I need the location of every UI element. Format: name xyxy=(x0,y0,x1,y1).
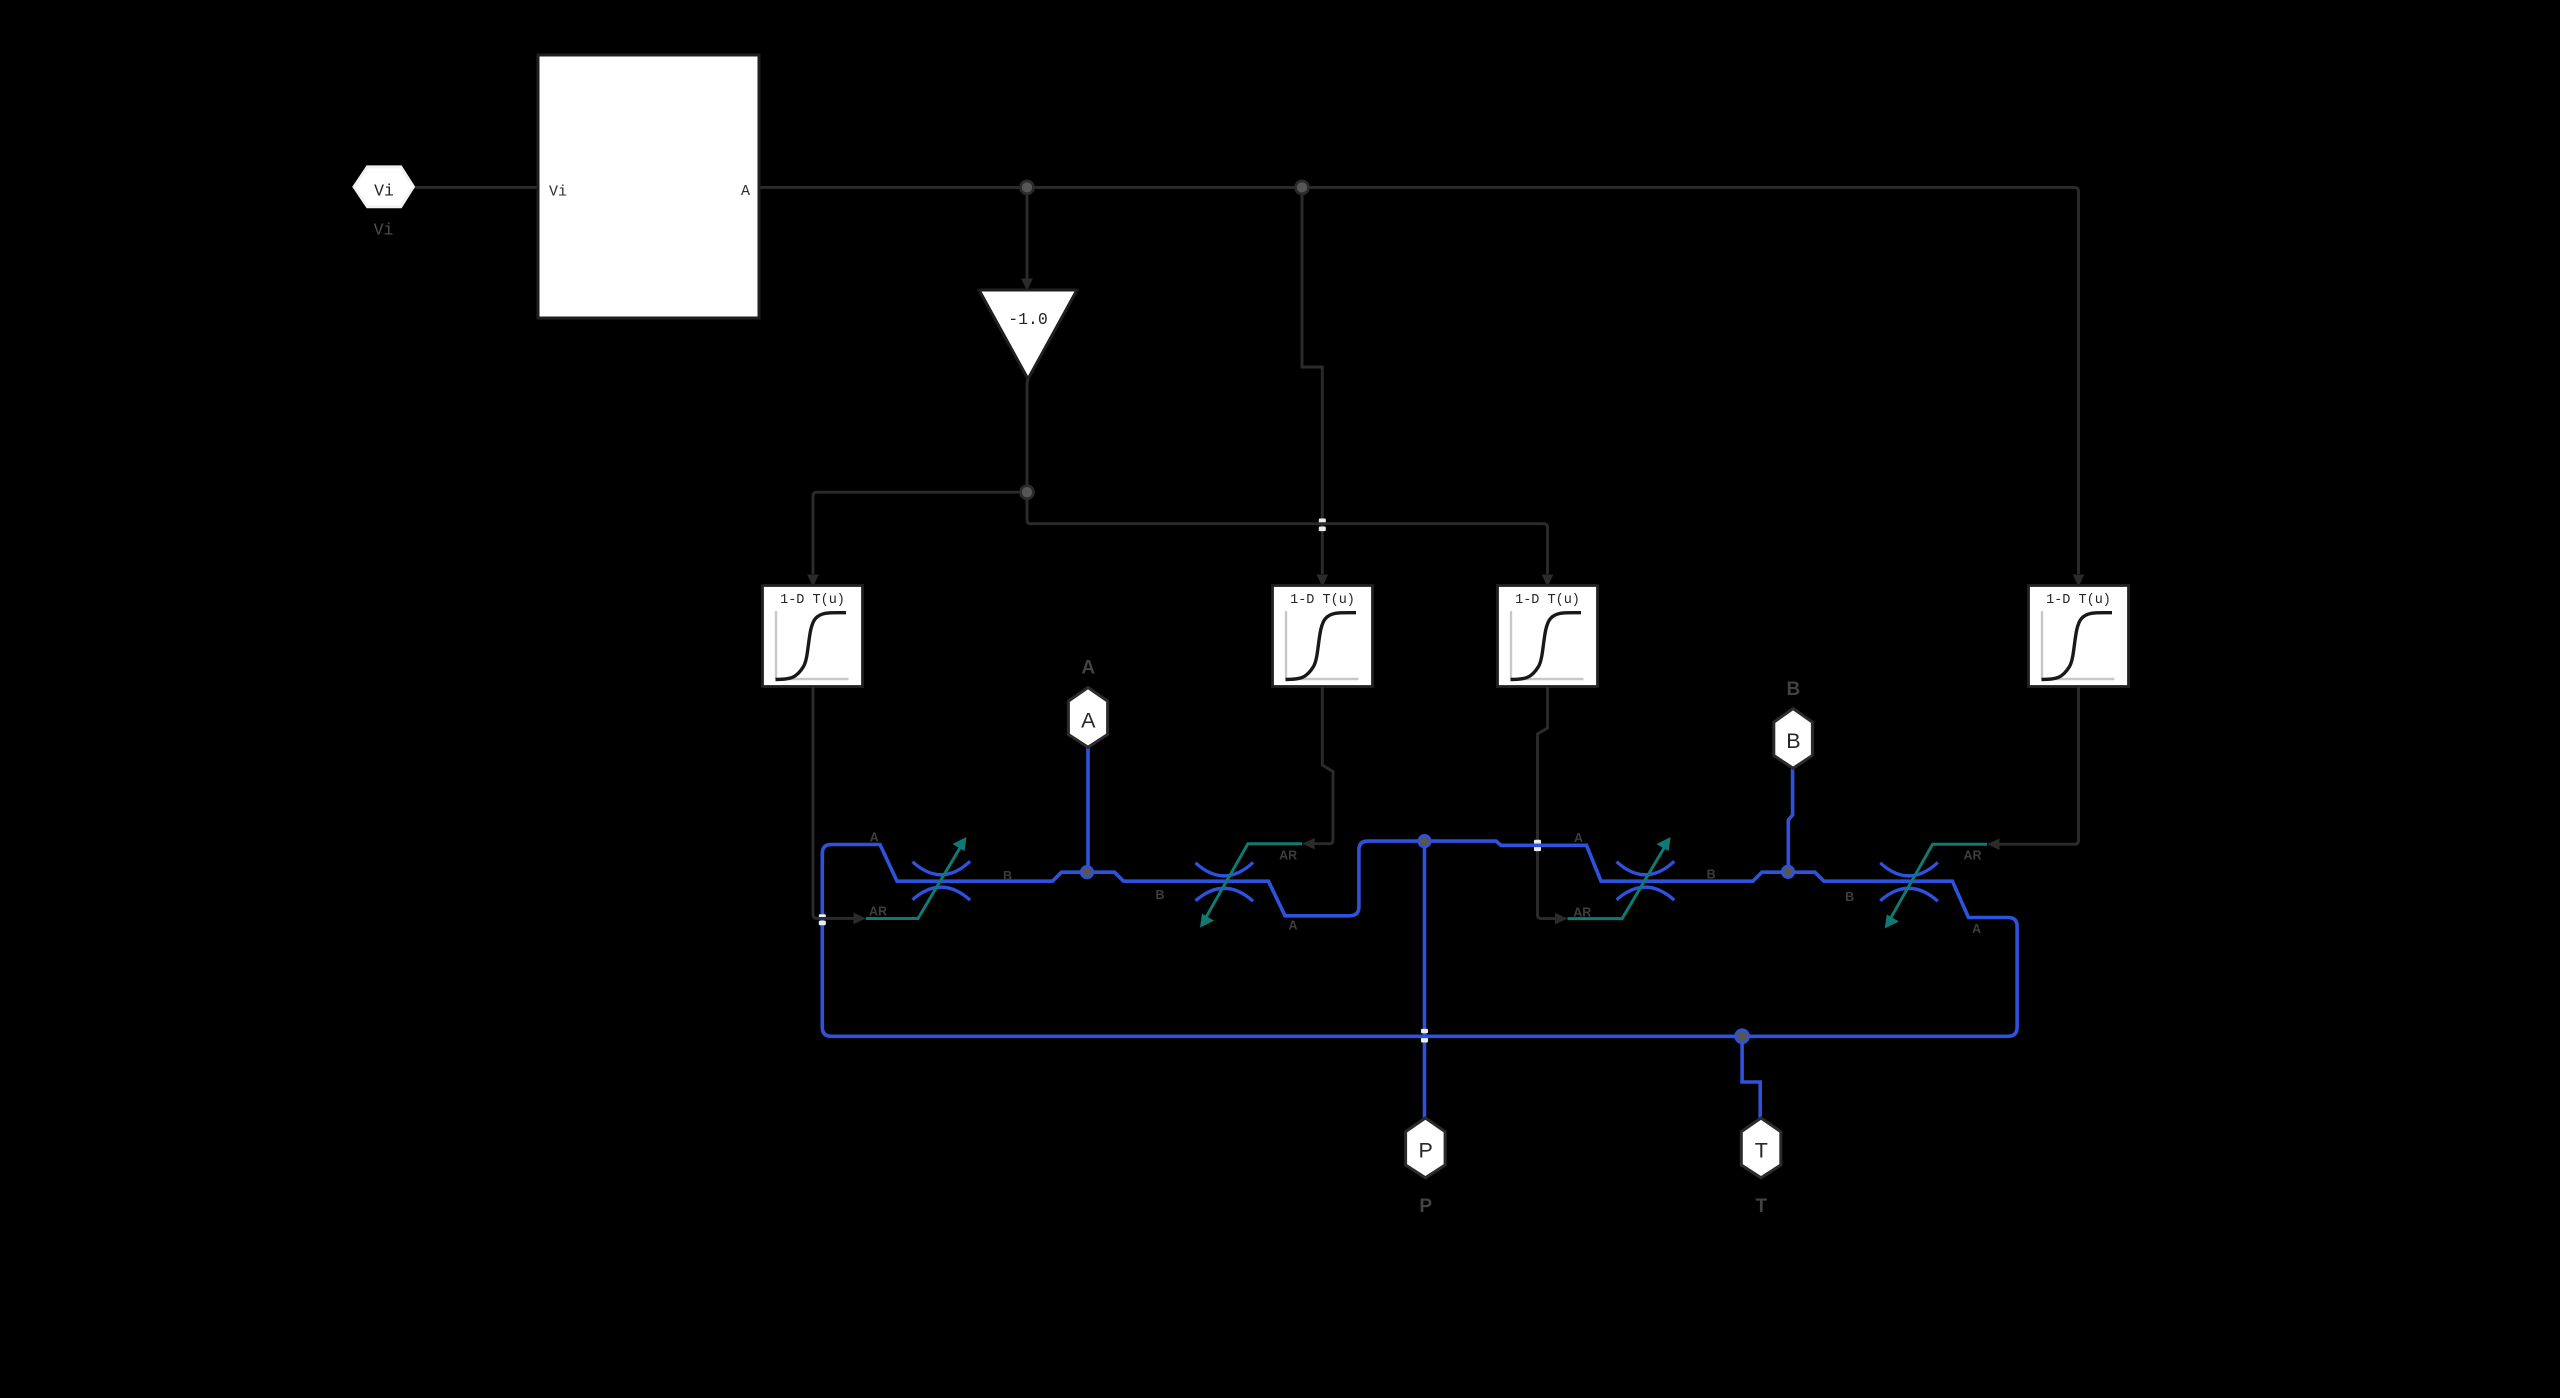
port hexagon P xyxy=(1406,1118,1446,1178)
svg-text:B: B xyxy=(1003,869,1012,883)
arrowhead into LUT1 xyxy=(807,575,819,588)
svg-text:Vi: Vi xyxy=(374,221,394,240)
orifice3 arcs xyxy=(1617,861,1675,900)
junction node B net (1788,872) xyxy=(1782,866,1794,878)
crossover gap marks on blue left vertical at LUT1 output crossing xyxy=(819,914,826,919)
wire: LUT4 output to orifice4 AR xyxy=(1998,687,2079,845)
svg-text:P: P xyxy=(1419,1196,1432,1217)
port hexagon A xyxy=(1068,688,1107,748)
wire: Vi port to subsystem input xyxy=(413,186,538,189)
crossover gap marks on LUT3 output wire xyxy=(1534,840,1541,845)
lookup table LUT3 xyxy=(1498,586,1598,687)
wire: port B drop to node xyxy=(1788,768,1792,872)
svg-text:1-D T(u): 1-D T(u) xyxy=(1290,593,1355,608)
svg-text:B: B xyxy=(1155,888,1164,902)
arrowhead into orifice2 AR (pointing left) xyxy=(1302,838,1315,850)
svg-text:A: A xyxy=(870,831,879,845)
svg-text:A: A xyxy=(1081,709,1096,733)
lookup table LUT2 xyxy=(1273,586,1373,687)
arrowhead into LUT2 xyxy=(1317,575,1329,588)
crossover gap marks on LUT2 input wire xyxy=(1319,519,1326,524)
wire: junction to LUT1 input xyxy=(813,492,1027,574)
svg-text:B: B xyxy=(1707,867,1716,881)
wire: LUT3 output down to orifice3 AR xyxy=(1538,687,1557,919)
input port hexagon Vi xyxy=(354,167,413,207)
svg-text:A: A xyxy=(1288,918,1297,932)
wire: junction down from (1302,187) to LUT2 input with jog xyxy=(1302,187,1322,574)
orifice2 control arrow (teal) xyxy=(1202,844,1302,924)
svg-text:AR: AR xyxy=(1573,905,1591,919)
junction node on top bus (1027,187) xyxy=(1021,181,1034,194)
port hexagon B xyxy=(1774,709,1813,769)
svg-text:P: P xyxy=(1419,1139,1433,1163)
junction node P net (1424.5,841) xyxy=(1419,835,1431,847)
svg-text:A: A xyxy=(1574,831,1583,845)
junction node A net (1087,872) xyxy=(1081,866,1093,878)
port hexagon T xyxy=(1741,1118,1781,1178)
wire: port A drop to node xyxy=(1086,748,1090,873)
svg-text:AR: AR xyxy=(1963,849,1981,863)
svg-text:1-D T(u): 1-D T(u) xyxy=(1515,593,1580,608)
orifice4 arcs xyxy=(1880,862,1938,901)
orifice4 control arrow (teal) xyxy=(1887,844,1987,924)
svg-text:B: B xyxy=(1845,890,1854,904)
svg-text:-1.0: -1.0 xyxy=(1008,310,1048,329)
wire: P port drop (crosses bus) xyxy=(1423,841,1427,1118)
lookup table LUT1 xyxy=(763,586,863,687)
crossover gap marks on P wire at bus xyxy=(1421,1029,1428,1033)
junction node at gain output (1027,492) xyxy=(1021,486,1034,499)
arrowhead into orifice3 AR (pointing right) xyxy=(1555,913,1568,925)
orifice3 control arrow (teal) xyxy=(1568,841,1669,919)
svg-text:1-D T(u): 1-D T(u) xyxy=(2046,593,2111,608)
svg-text:A: A xyxy=(1972,922,1981,936)
svg-text:B: B xyxy=(1786,729,1800,753)
orifice1 control arrow (teal) xyxy=(866,841,964,919)
gain block -1.0 xyxy=(979,290,1077,379)
arrowhead into orifice4 AR (pointing left) xyxy=(1987,838,2000,850)
wire: main blue hydraulic loop xyxy=(822,841,2017,1036)
wire: gain output down to junction xyxy=(1027,379,1028,492)
svg-text:Vi: Vi xyxy=(549,184,567,201)
arrowhead into LUT3 xyxy=(1542,575,1554,588)
svg-text:AR: AR xyxy=(869,905,887,919)
svg-text:T: T xyxy=(1755,1196,1767,1217)
wire: subsystem output A bus across top xyxy=(759,187,2079,574)
svg-text:A: A xyxy=(1081,657,1095,678)
wire: T port drop from bus xyxy=(1742,1036,1760,1118)
svg-text:Vi: Vi xyxy=(374,182,394,201)
svg-text:B: B xyxy=(1787,679,1801,700)
arrowhead into gain xyxy=(1021,279,1033,292)
subsystem block xyxy=(538,55,759,318)
svg-text:1-D T(u): 1-D T(u) xyxy=(780,593,845,608)
svg-text:T: T xyxy=(1755,1139,1768,1163)
orifice1 arcs xyxy=(913,861,971,900)
lookup table LUT4 xyxy=(2029,586,2129,687)
wire: LUT1 output to orifice1 AR xyxy=(813,687,856,919)
svg-text:AR: AR xyxy=(1279,849,1297,863)
wire: drop from junction to gain xyxy=(1026,187,1029,278)
wire: junction down then right to LUT3 input xyxy=(1027,492,1548,574)
svg-text:A: A xyxy=(741,183,750,200)
arrowhead into orifice1 AR (pointing right) xyxy=(854,913,867,925)
junction node on top bus (1302,187) xyxy=(1296,181,1309,194)
wire: LUT2 output to orifice2 AR xyxy=(1313,687,1333,844)
junction node T net on bus (1742,1036) xyxy=(1736,1030,1749,1043)
orifice2 arcs xyxy=(1196,862,1254,901)
arrowhead into LUT4 xyxy=(2073,575,2085,588)
